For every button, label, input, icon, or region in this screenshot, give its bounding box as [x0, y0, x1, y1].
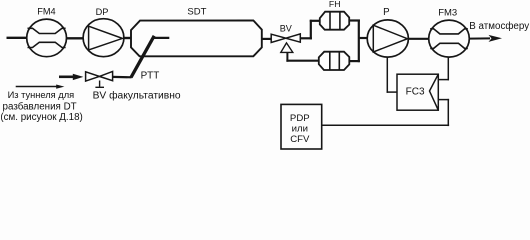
svg-text:разбавления DT: разбавления DT [3, 101, 77, 112]
svg-text:BV факультативно: BV факультативно [93, 89, 181, 101]
svg-text:P: P [383, 7, 389, 18]
svg-text:FH: FH [329, 0, 341, 9]
svg-text:DP: DP [96, 7, 109, 17]
svg-text:SDT: SDT [187, 6, 206, 17]
svg-text:FM3: FM3 [438, 7, 457, 18]
svg-text:PTT: PTT [141, 71, 160, 82]
svg-text:(см. рисунок Д.18): (см. рисунок Д.18) [0, 112, 82, 123]
svg-text:Из туннеля для: Из туннеля для [8, 90, 75, 100]
svg-text:или: или [292, 124, 308, 135]
svg-text:В атмосферу: В атмосферу [469, 21, 529, 32]
svg-text:FM4: FM4 [37, 6, 55, 16]
svg-text:FC3: FC3 [406, 87, 425, 98]
svg-text:PDP: PDP [290, 113, 310, 124]
svg-text:CFV: CFV [290, 134, 310, 145]
svg-text:BV: BV [280, 24, 293, 34]
